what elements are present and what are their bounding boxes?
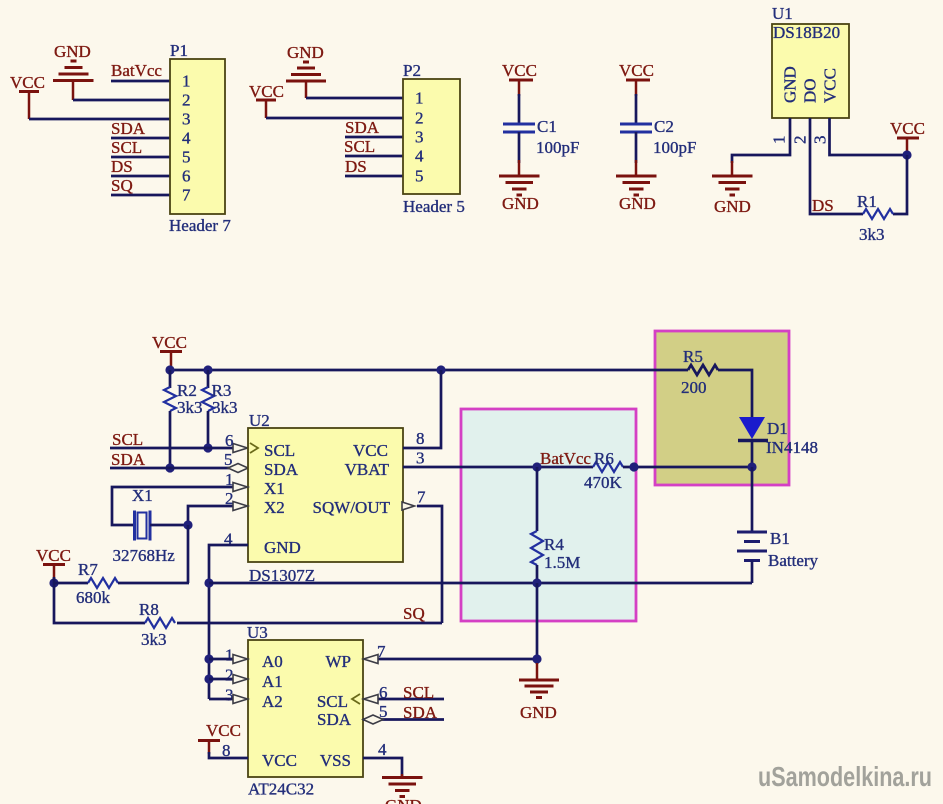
wire P2 pin4 <box>345 155 403 158</box>
wire VCC to C2 <box>635 94 638 124</box>
resistor R7 <box>54 560 189 607</box>
capacitor C1 <box>503 117 579 157</box>
svg-text:32768Hz: 32768Hz <box>113 546 176 565</box>
ground (C1) <box>499 160 540 213</box>
resistor R2 <box>164 370 203 468</box>
wire P2 pin2 <box>266 117 403 120</box>
wire U1 pin1 <box>732 118 790 163</box>
pin arrow U2 X1 <box>233 483 248 492</box>
wire P1 pin2 <box>73 99 170 102</box>
wire VCC rail <box>171 369 688 372</box>
wire U3 A0 <box>209 658 233 661</box>
svg-text:X2: X2 <box>264 498 285 517</box>
svg-text:3k3: 3k3 <box>212 398 238 417</box>
svg-text:3k3: 3k3 <box>859 225 885 244</box>
IC U2 DS1307Z <box>224 411 426 585</box>
pin arrow U3 SDA (bidir) <box>363 715 383 724</box>
pin arrow U3 SCL <box>364 695 379 704</box>
olive region box <box>655 331 789 485</box>
node junction R3/SCL <box>203 443 212 452</box>
svg-text:1: 1 <box>415 89 424 108</box>
resistor R8 <box>139 600 442 649</box>
power VCC (R7) <box>36 546 71 579</box>
svg-text:U2: U2 <box>249 411 270 430</box>
wire U2 VBAT <box>403 466 593 469</box>
wire U2 SQW/OUT pin7 <box>417 506 442 623</box>
svg-text:3: 3 <box>811 136 830 145</box>
svg-text:SDA: SDA <box>111 450 146 469</box>
wire SDA <box>110 467 229 470</box>
svg-text:VCC: VCC <box>619 61 654 80</box>
power VCC (C1) <box>502 61 537 96</box>
svg-text:4: 4 <box>182 129 191 148</box>
svg-text:R5: R5 <box>683 347 703 366</box>
svg-text:A0: A0 <box>262 652 283 671</box>
svg-text:VBAT: VBAT <box>345 460 390 479</box>
ground (U3 VSS) <box>382 774 423 804</box>
svg-text:R8: R8 <box>139 600 159 619</box>
resistor R3 <box>202 370 238 448</box>
svg-text:R1: R1 <box>857 192 877 211</box>
svg-text:C2: C2 <box>654 117 674 136</box>
node junction rail/U2 VCC <box>436 365 445 374</box>
svg-text:100pF: 100pF <box>536 138 579 157</box>
pin arrow U2 SQW/OUT <box>402 502 415 510</box>
blue region box <box>461 409 636 621</box>
clock chevron U3 SCL <box>352 694 360 704</box>
connector P2 Header 5 <box>403 61 465 216</box>
svg-text:GND: GND <box>714 197 751 216</box>
node junction rail/R2 <box>165 365 174 374</box>
svg-text:2: 2 <box>791 136 810 145</box>
svg-text:B1: B1 <box>770 529 790 548</box>
wire U2 GND pin4 <box>209 545 248 699</box>
svg-text:SQ: SQ <box>403 604 425 623</box>
svg-text:1.5M: 1.5M <box>544 553 580 572</box>
wire X2 node down <box>187 525 190 583</box>
svg-text:7: 7 <box>182 186 191 205</box>
power VCC (P1) <box>10 73 45 119</box>
wire C1 to ground <box>518 132 521 163</box>
svg-text:SDA: SDA <box>111 119 146 138</box>
power VCC (P2) <box>249 82 284 118</box>
node junction R2/SDA <box>165 463 174 472</box>
svg-text:AT24C32: AT24C32 <box>248 780 314 799</box>
wire P2 pin5 <box>345 175 403 178</box>
svg-text:P1: P1 <box>170 41 188 60</box>
svg-text:3k3: 3k3 <box>141 630 167 649</box>
svg-text:VCC: VCC <box>206 721 241 740</box>
node junction rail/R3 <box>203 365 212 374</box>
svg-text:X1: X1 <box>132 486 153 505</box>
svg-text:SQ: SQ <box>111 176 133 195</box>
svg-text:2: 2 <box>415 109 424 128</box>
wire P1 pin6 <box>111 175 170 178</box>
svg-text:VCC: VCC <box>152 333 187 352</box>
pin arrow U2 SDA (bidir) <box>228 464 248 473</box>
node junction BatVcc <box>532 462 541 471</box>
battery B1 <box>737 529 819 570</box>
svg-text:U1: U1 <box>772 4 793 23</box>
svg-text:5: 5 <box>182 148 191 167</box>
svg-text:100pF: 100pF <box>653 138 696 157</box>
svg-text:uSamodelkina.ru: uSamodelkina.ru <box>758 761 932 792</box>
wire GND rail <box>209 582 752 585</box>
resistor R6 <box>584 449 752 492</box>
svg-text:6: 6 <box>182 167 191 186</box>
svg-text:SCL: SCL <box>403 683 434 702</box>
wire VCC to C1 <box>518 94 521 124</box>
svg-text:1: 1 <box>182 72 191 91</box>
svg-text:VSS: VSS <box>320 751 351 770</box>
wire battery bottom <box>751 561 754 584</box>
svg-text:2: 2 <box>182 91 191 110</box>
wire SCL <box>110 447 233 450</box>
svg-text:BatVcc: BatVcc <box>111 61 162 80</box>
svg-text:A1: A1 <box>262 672 283 691</box>
svg-text:VCC: VCC <box>821 68 840 103</box>
svg-text:IN4148: IN4148 <box>766 438 818 457</box>
svg-text:VCC: VCC <box>36 546 71 565</box>
wire U3 SDA <box>363 718 444 721</box>
capacitor C2 <box>620 117 696 157</box>
wire U2 VCC pin8 <box>403 370 441 448</box>
power VCC (U3) <box>198 721 241 754</box>
svg-text:P2: P2 <box>403 61 421 80</box>
ground (P1, inverted) <box>53 42 94 100</box>
svg-text:SDA: SDA <box>264 460 299 479</box>
node junction R6/box edge <box>629 462 638 471</box>
svg-text:X1: X1 <box>264 479 285 498</box>
wire C2 to ground <box>635 132 638 163</box>
wire crystal to X2 <box>150 506 233 525</box>
svg-text:R7: R7 <box>78 560 98 579</box>
svg-text:Header 7: Header 7 <box>169 216 231 235</box>
svg-text:SCL: SCL <box>111 138 142 157</box>
wire P1 pin1 <box>111 80 170 83</box>
svg-text:GND: GND <box>781 66 800 103</box>
resistor R1 <box>857 192 893 244</box>
wire U1 pin3 <box>830 118 908 155</box>
node junction crystal/X2 <box>183 520 192 529</box>
wire VCC down to R8 <box>54 583 145 623</box>
node junction GND rail/pin4 <box>204 578 213 587</box>
svg-text:DS: DS <box>345 157 367 176</box>
svg-text:DS18B20: DS18B20 <box>773 23 840 42</box>
svg-text:3k3: 3k3 <box>177 398 203 417</box>
ground (U1) <box>712 161 753 216</box>
wire mid ground drop <box>536 583 539 664</box>
svg-text:U3: U3 <box>247 623 268 642</box>
wire U3 SCL <box>378 698 444 701</box>
svg-text:DS: DS <box>812 196 834 215</box>
wire U3 VCC pin8 <box>209 752 248 758</box>
svg-text:SCL: SCL <box>344 137 375 156</box>
pin arrow U3 A1 <box>233 675 248 684</box>
svg-text:GND: GND <box>520 703 557 722</box>
svg-text:SDA: SDA <box>317 710 352 729</box>
power VCC (C2) <box>619 61 654 96</box>
wire P1 pin3 <box>29 118 170 121</box>
svg-text:VCC: VCC <box>353 441 388 460</box>
wire VCC to R1 <box>893 155 907 214</box>
svg-text:SDA: SDA <box>403 703 438 722</box>
node junction A0 <box>204 654 213 663</box>
power VCC (rail) <box>152 333 187 366</box>
svg-text:8: 8 <box>416 429 425 448</box>
svg-text:WP: WP <box>326 652 352 671</box>
connector P1 Header 7 <box>169 41 231 235</box>
svg-text:3: 3 <box>415 128 424 147</box>
clock chevron U2 SCL <box>250 443 258 453</box>
pin arrow U3 A2 <box>233 695 248 704</box>
wire rail to D1 <box>718 370 752 417</box>
wire P1 pin5 <box>111 156 170 159</box>
resistor R5 <box>681 347 718 397</box>
wire U3 A2 <box>209 698 233 701</box>
node junction D1/battery <box>747 462 756 471</box>
svg-text:3: 3 <box>416 449 425 468</box>
svg-text:A2: A2 <box>262 692 283 711</box>
pin arrow U2 X2 <box>233 502 248 511</box>
svg-text:GND: GND <box>502 194 539 213</box>
wire P2 pin3 <box>345 136 403 139</box>
svg-text:DS: DS <box>111 157 133 176</box>
svg-text:5: 5 <box>415 167 424 186</box>
svg-text:5: 5 <box>224 450 233 469</box>
wire U2 X1 <box>112 487 233 525</box>
svg-text:VCC: VCC <box>262 751 297 770</box>
svg-text:D1: D1 <box>767 419 788 438</box>
svg-text:GND: GND <box>264 538 301 557</box>
svg-text:470K: 470K <box>584 473 623 492</box>
wire P1 pin7 <box>111 194 170 197</box>
node junction VCC/R7 <box>49 578 58 587</box>
svg-text:Header 5: Header 5 <box>403 197 465 216</box>
node junction A1 <box>204 674 213 683</box>
svg-text:R6: R6 <box>594 449 614 468</box>
svg-text:GND: GND <box>54 42 91 61</box>
wire P1 pin4 <box>111 137 170 140</box>
ground (C2) <box>616 160 657 213</box>
svg-text:R4: R4 <box>544 535 564 554</box>
svg-text:SQW/OUT: SQW/OUT <box>313 498 391 517</box>
crystal X1 <box>113 486 176 565</box>
svg-text:4: 4 <box>415 147 424 166</box>
svg-text:7: 7 <box>417 488 426 507</box>
svg-text:SCL: SCL <box>317 692 348 711</box>
svg-text:VCC: VCC <box>249 82 284 101</box>
svg-text:200: 200 <box>681 378 707 397</box>
svg-text:SDA: SDA <box>345 118 380 137</box>
svg-text:GND: GND <box>287 43 324 62</box>
ground (P2, inverted) <box>286 43 326 98</box>
node junction WP/ground <box>532 654 541 663</box>
node junction R4/GND rail <box>532 578 541 587</box>
svg-text:GND: GND <box>619 194 656 213</box>
svg-text:SCL: SCL <box>264 441 295 460</box>
svg-text:VCC: VCC <box>10 73 45 92</box>
resistor R4 <box>531 467 580 583</box>
wire U3 VSS pin4 <box>363 758 402 777</box>
svg-text:SCL: SCL <box>112 430 143 449</box>
node junction U1 VCC <box>902 150 911 159</box>
svg-text:VCC: VCC <box>502 61 537 80</box>
wire battery top <box>751 467 754 531</box>
svg-text:VCC: VCC <box>890 119 925 138</box>
svg-text:3: 3 <box>182 110 191 129</box>
pin arrow U3 A0 <box>233 655 248 664</box>
svg-text:1: 1 <box>770 136 789 145</box>
sensor U1 DS18B20 <box>770 4 850 144</box>
svg-text:Battery: Battery <box>768 551 819 570</box>
svg-text:GND: GND <box>385 796 422 804</box>
pin arrow U3 WP <box>364 655 379 664</box>
wire U1 pin2 (DS) <box>810 118 863 214</box>
svg-text:6: 6 <box>225 431 234 450</box>
pin arrow U2 SCL <box>233 444 248 453</box>
wire U3 WP <box>378 658 537 661</box>
svg-text:C1: C1 <box>537 117 557 136</box>
wire P2 pin1 <box>306 97 403 100</box>
wire U3 A1 <box>209 678 233 681</box>
IC U3 AT24C32 <box>222 623 388 799</box>
svg-text:BatVcc: BatVcc <box>540 449 591 468</box>
power VCC (U1) <box>890 119 925 152</box>
svg-text:4: 4 <box>378 740 387 759</box>
svg-text:DO: DO <box>801 78 820 103</box>
ground (mid) <box>519 663 559 722</box>
svg-text:680k: 680k <box>76 588 111 607</box>
diode D1 IN4148 <box>738 417 818 467</box>
